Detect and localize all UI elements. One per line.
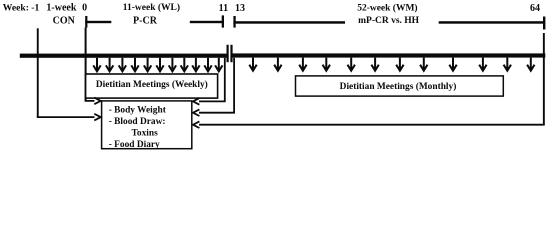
WM phase bracket left segment: [233, 21, 345, 24]
week -1 vertical line: [37, 28, 39, 117]
weekly arrow 7: [169, 58, 176, 72]
svg-text:11: 11: [219, 3, 228, 14]
monthly arrow 3: [299, 58, 306, 71]
measurements box: [102, 101, 192, 149]
P-CR phase bracket left segment: [85, 21, 111, 23]
elbow arrow from week 13 into measurements box: [193, 58, 234, 116]
monthly meetings box: [296, 76, 504, 96]
svg-text:- Body Weight: - Body Weight: [109, 105, 167, 115]
svg-text:P-CR: P-CR: [133, 16, 158, 27]
elbow arrow from week 11 into measurements box: [193, 58, 225, 105]
elbow arrow from week 0 into measurements box: [86, 98, 101, 105]
weekly arrow 5: [144, 58, 151, 72]
svg-text:- Food Diary: - Food Diary: [109, 140, 160, 150]
svg-text:64: 64: [530, 3, 540, 14]
svg-text:- Blood Draw:: - Blood Draw:: [109, 117, 166, 127]
WM phase bracket right segment: [439, 21, 545, 24]
weekly arrow 2: [106, 58, 113, 72]
week 64 vertical line: [543, 33, 545, 125]
WM phase bracket left tick: [233, 16, 235, 28]
elbow arrow from week -1 into measurements box: [38, 114, 101, 121]
weekly arrow 10: [204, 58, 211, 72]
svg-text:Dietitian Meetings (Weekly): Dietitian Meetings (Weekly): [96, 79, 208, 90]
svg-text:0: 0: [82, 3, 87, 14]
weekly arrow 6: [156, 58, 163, 72]
P-CR phase bracket right tick: [222, 15, 224, 27]
monthly arrow 6: [371, 58, 378, 71]
timeline bar left segment: [20, 54, 227, 58]
svg-text:CON: CON: [53, 16, 76, 27]
week 13 tall tick: [230, 45, 232, 62]
monthly arrow 10: [479, 58, 486, 71]
elbow arrow from week 64 into measurements box: [193, 121, 544, 128]
svg-text:1-week: 1-week: [46, 3, 76, 14]
weekly meetings box: [86, 74, 218, 98]
monthly arrow 2: [274, 58, 281, 71]
WM phase bracket right tick: [543, 17, 545, 30]
monthly arrow 12: [527, 58, 534, 71]
timeline bar right segment: [232, 53, 545, 57]
P-CR phase bracket right segment: [190, 21, 223, 23]
svg-text:11-week (WL): 11-week (WL): [123, 2, 180, 13]
weekly arrow 1: [93, 58, 100, 72]
monthly arrow 11: [504, 58, 511, 71]
week 11 tall tick: [227, 45, 229, 62]
monthly down arrows: [249, 58, 534, 71]
monthly arrow 4: [323, 58, 330, 71]
monthly arrow 7: [396, 58, 403, 71]
weekly arrow 8: [181, 58, 188, 72]
svg-text:Toxins: Toxins: [132, 128, 159, 138]
monthly arrow 9: [449, 58, 456, 71]
weekly down arrows: [93, 58, 222, 72]
svg-text:Week: -1: Week: -1: [3, 3, 40, 14]
monthly arrow 8: [420, 58, 427, 71]
svg-text:13: 13: [235, 3, 245, 14]
P-CR phase bracket left tick: [85, 16, 87, 28]
monthly arrow 1: [249, 58, 256, 71]
weekly arrow 9: [192, 58, 199, 72]
weekly arrow 4: [131, 58, 138, 72]
weekly arrow 3: [119, 58, 126, 72]
weekly arrow 11: [215, 58, 222, 72]
week 0 vertical line: [85, 28, 87, 102]
monthly arrow 5: [348, 58, 355, 71]
svg-text:mP-CR vs. HH: mP-CR vs. HH: [358, 16, 420, 26]
svg-text:52-week (WM): 52-week (WM): [357, 2, 417, 13]
svg-text:Dietitian Meetings (Monthly): Dietitian Meetings (Monthly): [340, 81, 457, 92]
